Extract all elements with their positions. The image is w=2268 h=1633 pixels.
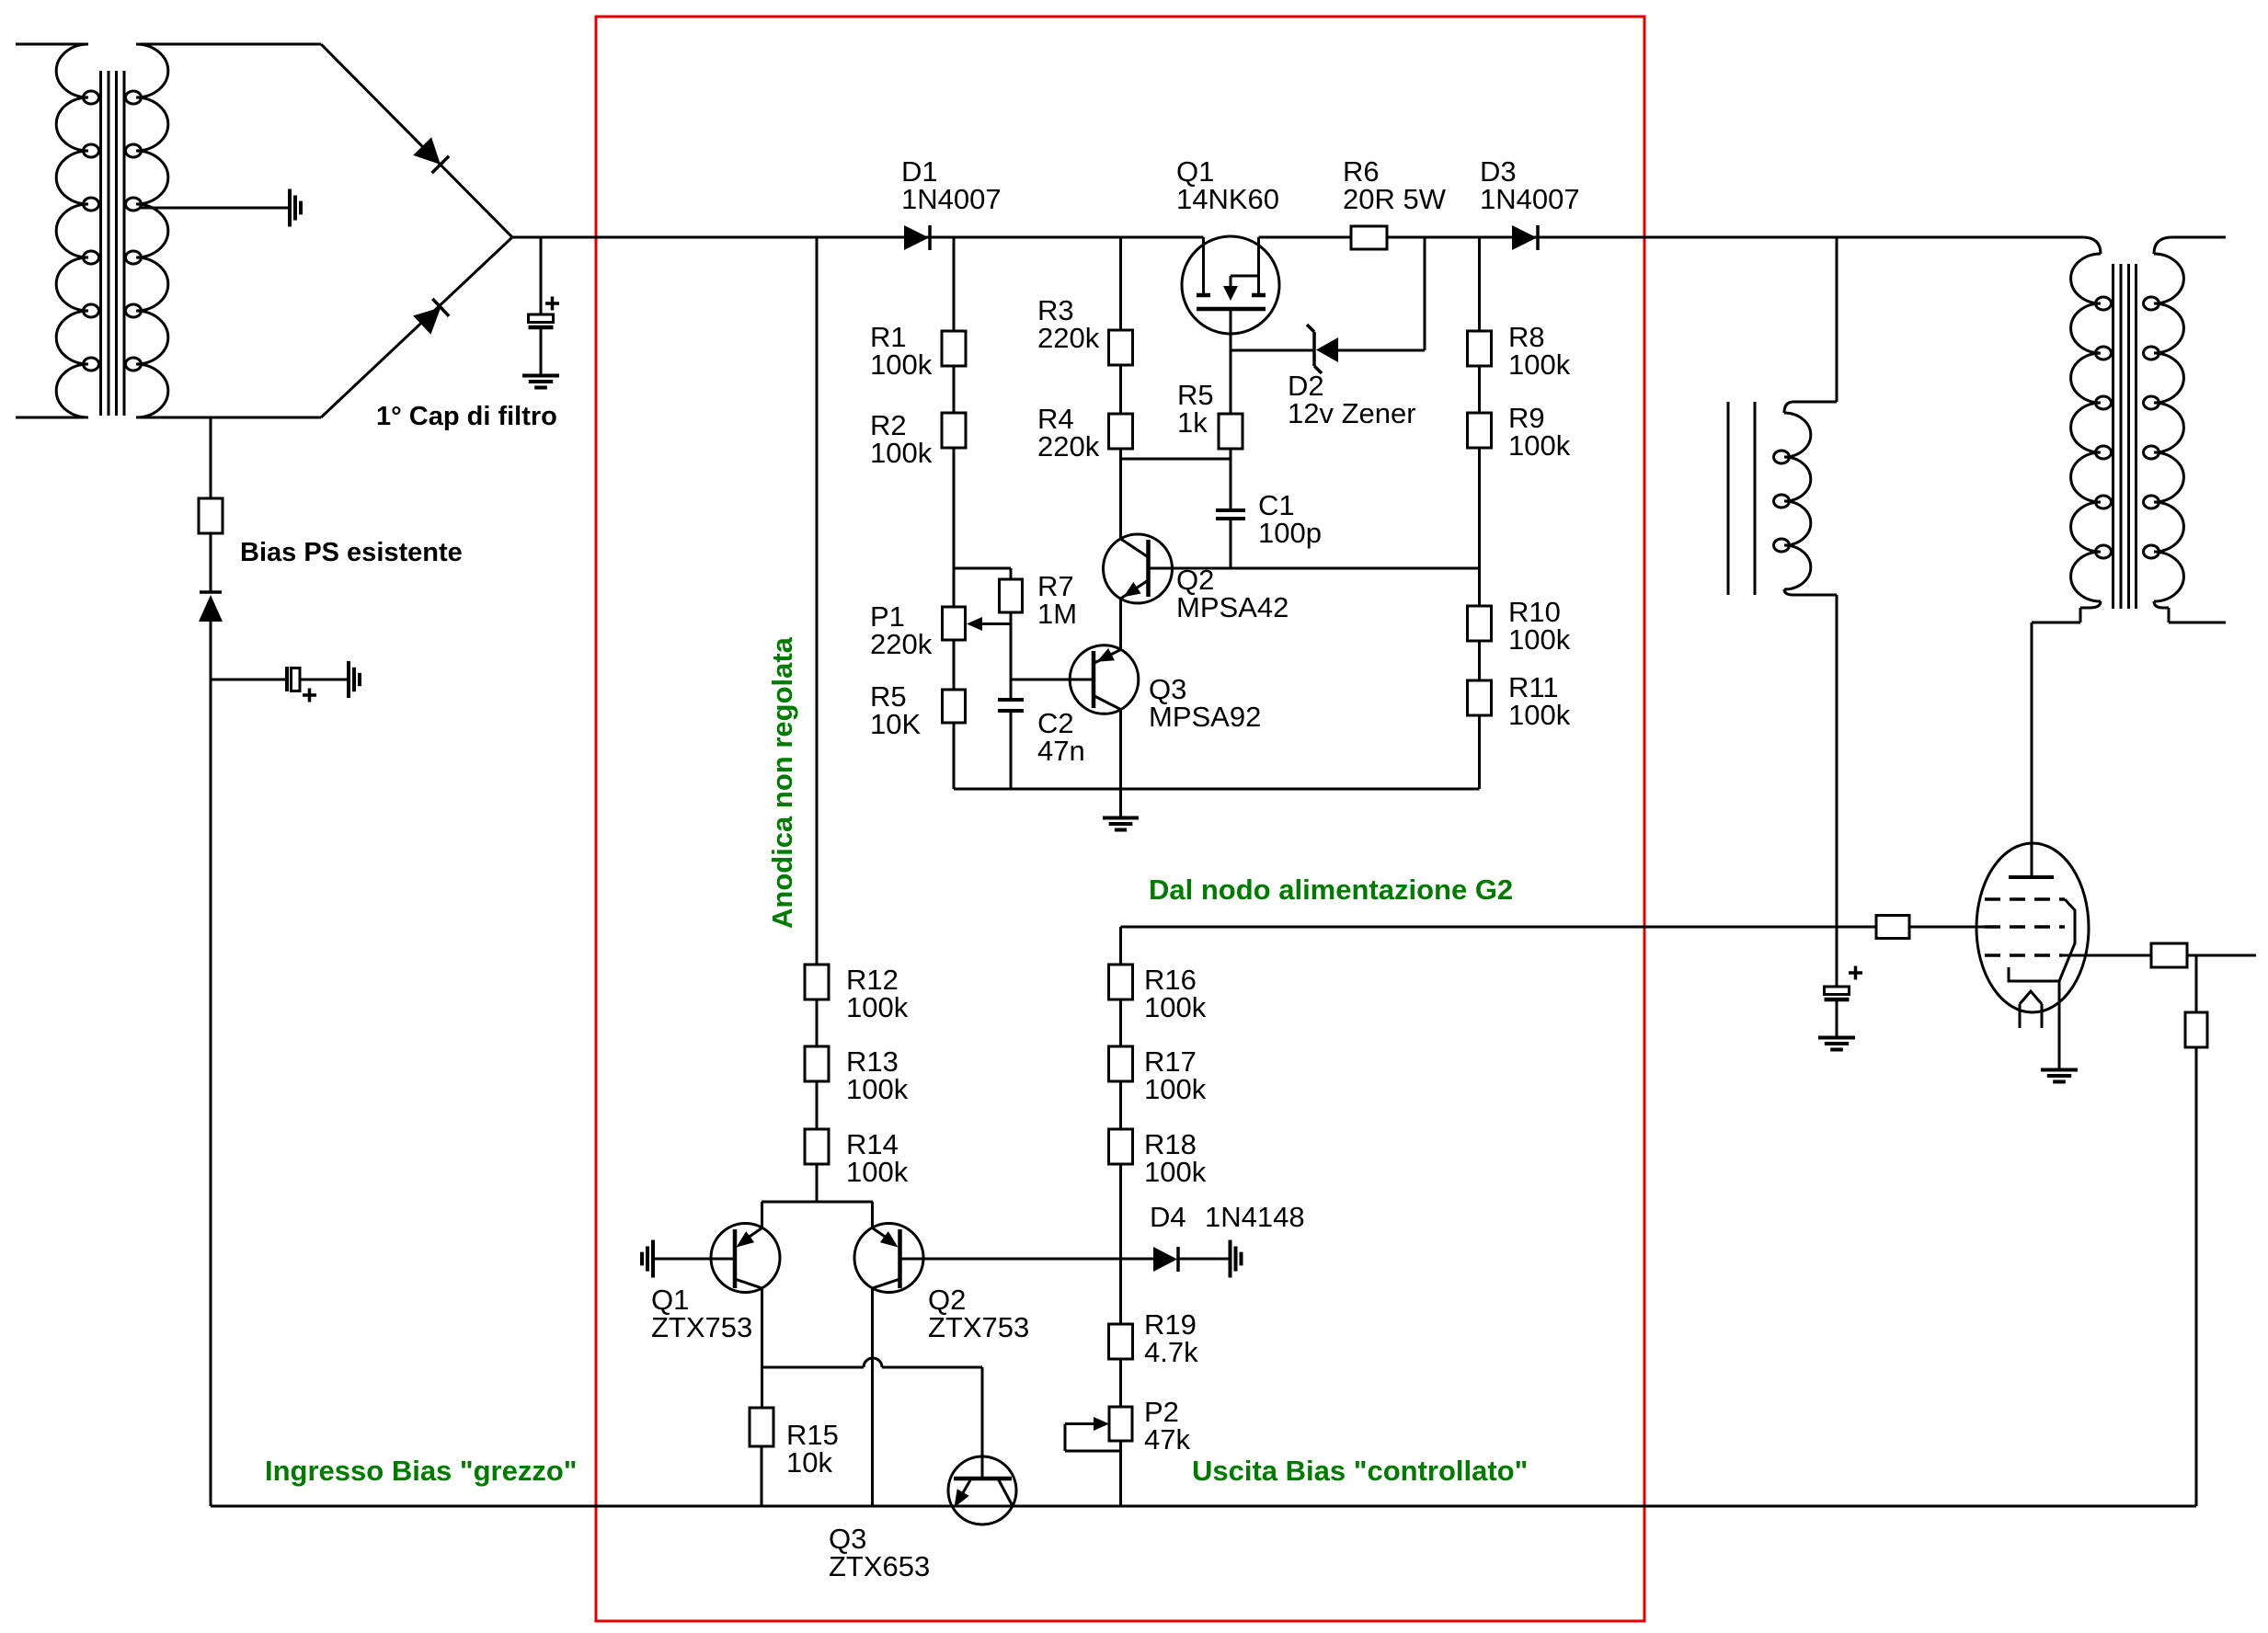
potentiometer P1: [943, 607, 966, 640]
wire rectifier lower diagonal: [321, 237, 512, 417]
label R11: [1508, 671, 1571, 731]
label Ingresso Bias "grezzo": [265, 1455, 578, 1487]
resistor R14: [805, 1129, 829, 1164]
label R2: [870, 409, 933, 469]
wire Q1 ZTX branch: [761, 1202, 763, 1408]
resistor R10: [1468, 606, 1492, 641]
svg-text:Uscita Bias "controllato": Uscita Bias "controllato": [1192, 1455, 1528, 1487]
svg-text:ZTX653: ZTX653: [829, 1550, 930, 1582]
svg-text:1N4148: 1N4148: [1205, 1201, 1305, 1233]
wire bias left rail: [210, 622, 212, 1506]
capacitor C2: [998, 700, 1024, 711]
wire bias output rail: [211, 1505, 2196, 1508]
resistor R5 1k: [1219, 414, 1243, 449]
ground cathode: [2041, 1070, 2078, 1082]
wire bias tap upper: [210, 417, 212, 498]
tube grid g1: [1985, 954, 2062, 957]
tube V1 envelope: [1976, 843, 2089, 1012]
wire B+ rail left: [512, 236, 1204, 239]
rectifier diode upper: [413, 137, 449, 173]
wire plate lead: [2031, 622, 2033, 877]
resistor R11: [1468, 680, 1492, 715]
transistor Q2 ZTX753: [854, 1224, 923, 1293]
wire R7 C2 chain: [1010, 568, 1013, 789]
diode bias: [199, 592, 223, 622]
svg-text:1N4007: 1N4007: [1480, 183, 1580, 215]
label R4: [1037, 403, 1100, 462]
ground 1° cap: [522, 376, 559, 388]
svg-text:MPSA42: MPSA42: [1176, 591, 1289, 623]
label Bias PS esistente: [240, 538, 463, 567]
capacitor C1: [1216, 510, 1245, 568]
wire regulator bottom rail: [954, 788, 1480, 791]
resistor R13: [805, 1046, 829, 1081]
wire Q1 base: [653, 1258, 734, 1261]
svg-text:1° Cap di filtro: 1° Cap di filtro: [376, 402, 557, 431]
wire divider chain A: [953, 237, 956, 789]
label R7: [1037, 570, 1077, 630]
svg-text:10k: 10k: [786, 1446, 832, 1479]
svg-text:220k: 220k: [1037, 430, 1100, 462]
wire centre tap: [141, 207, 290, 210]
resistor R5 10K: [943, 690, 966, 723]
svg-text:100k: 100k: [1508, 429, 1571, 462]
resistor R1: [942, 331, 966, 366]
tube grid g3: [1985, 899, 2075, 981]
svg-text:47k: 47k: [1144, 1423, 1190, 1456]
resistor g1 stopper: [2151, 943, 2187, 967]
svg-text:D4: D4: [1150, 1201, 1186, 1233]
potentiometer P2: [1109, 1407, 1132, 1441]
choke core: [1728, 402, 1755, 595]
label R6: [1343, 155, 1447, 215]
svg-text:1k: 1k: [1177, 406, 1208, 439]
resistor G2 stopper: [1876, 916, 1909, 939]
label Dal nodo alimentazione G2: [1149, 874, 1513, 906]
svg-text:100k: 100k: [870, 437, 933, 469]
capacitor 1° cap di filtro: [529, 237, 560, 375]
tube grid g2: [1985, 925, 2065, 929]
label C2: [1037, 707, 1085, 767]
wire R4 to R5 link: [1121, 458, 1231, 461]
label Q1 14NK60: [1176, 155, 1279, 215]
svg-text:100k: 100k: [846, 1073, 909, 1105]
svg-text:14NK60: 14NK60: [1176, 183, 1279, 215]
tube cathode: [2009, 967, 2059, 981]
wire chain G2 divider: [1119, 965, 1122, 1506]
label R15: [786, 1419, 839, 1479]
resistor R7: [1000, 579, 1023, 612]
rectifier diode lower: [413, 299, 449, 335]
wire Q2 base line: [1149, 567, 1480, 570]
label Uscita Bias "controllato": [1192, 1455, 1528, 1487]
label Anodica non regolata: [766, 636, 798, 929]
svg-text:1M: 1M: [1037, 598, 1077, 630]
resistor bias dropper: [199, 498, 223, 533]
resistor R2: [942, 413, 966, 448]
label D4 1N4148: [1150, 1201, 1305, 1233]
svg-text:Dal nodo alimentazione G2: Dal nodo alimentazione G2: [1149, 874, 1513, 906]
label R12: [846, 964, 909, 1023]
svg-text:Ingresso Bias "grezzo": Ingresso Bias "grezzo": [265, 1455, 578, 1487]
label Q3 ZTX653: [829, 1523, 930, 1582]
label Q3 MPSA92: [1149, 673, 1261, 733]
wire Q3 base: [1011, 679, 1094, 681]
svg-text:10K: 10K: [870, 708, 921, 740]
svg-text:100k: 100k: [1508, 699, 1571, 731]
wire g1 lead: [2062, 954, 2256, 957]
wire divider chain B: [1119, 237, 1122, 817]
svg-text:ZTX753: ZTX753: [651, 1311, 752, 1343]
svg-text:100k: 100k: [846, 991, 909, 1023]
resistor R8: [1468, 331, 1492, 366]
resistor R15: [750, 1408, 773, 1446]
label P2: [1144, 1396, 1190, 1456]
label R10: [1508, 596, 1571, 656]
wire R5 to C1: [1230, 449, 1232, 510]
label C1: [1258, 489, 1322, 549]
resistor R3: [1109, 330, 1133, 365]
svg-text:1N4007: 1N4007: [901, 183, 1002, 215]
wire bias tap mid: [210, 533, 212, 593]
svg-text:12v Zener: 12v Zener: [1288, 397, 1416, 429]
potentiometer P2 wiper: [1065, 1417, 1121, 1451]
wire collector bus: [762, 1201, 873, 1204]
OPT core: [2113, 264, 2136, 609]
label Q1 ZTX753: [651, 1284, 752, 1343]
resistor R19: [1109, 1324, 1133, 1359]
label D1 1N4007: [901, 155, 1002, 215]
red boundary frame: [596, 17, 1644, 1621]
chassis ground Q1 base: [642, 1240, 653, 1278]
label R1: [870, 321, 933, 381]
wire B+ rail right: [1259, 236, 2083, 239]
label D3: [1480, 155, 1580, 215]
label R13: [846, 1045, 909, 1105]
wire zener branch: [1231, 237, 1425, 350]
resistor R9: [1468, 413, 1492, 448]
wire grid leak branch: [2195, 955, 2198, 1506]
wire anodica non regolata: [816, 237, 819, 1202]
resistor R12: [805, 965, 829, 999]
label R17: [1144, 1045, 1207, 1105]
label R16: [1144, 964, 1207, 1023]
label 1° Cap di filtro: [376, 402, 557, 431]
svg-text:100k: 100k: [1508, 623, 1571, 656]
resistor R4: [1109, 414, 1133, 449]
label R5 10K: [870, 680, 921, 740]
transformer T1 core: [101, 71, 125, 416]
svg-text:ZTX753: ZTX753: [928, 1311, 1029, 1343]
svg-text:100k: 100k: [1144, 1156, 1207, 1188]
capacitor G2 filter: [1825, 927, 1863, 1037]
label R18: [1144, 1128, 1207, 1188]
resistor R16: [1109, 965, 1133, 999]
wire chain C: [1478, 237, 1481, 789]
svg-text:100p: 100p: [1258, 517, 1322, 549]
diode D4: [1153, 1247, 1178, 1272]
resistor R6: [1351, 226, 1387, 249]
wire bias cap branch: [211, 679, 349, 681]
output transformer primary winding: [2032, 237, 2112, 622]
svg-text:4.7k: 4.7k: [1144, 1336, 1198, 1368]
label D2: [1288, 370, 1416, 429]
wire choke to G2 node: [1836, 595, 1838, 927]
svg-text:100k: 100k: [870, 348, 933, 381]
transistor Q3 ZTX653: [948, 1456, 1016, 1525]
svg-text:47n: 47n: [1037, 735, 1085, 767]
label R8: [1508, 321, 1571, 381]
label R5 1k: [1177, 379, 1214, 439]
label Q2 MPSA42: [1176, 564, 1289, 623]
chassis ground centre tap: [290, 189, 301, 227]
wire R2 to R7 tap: [954, 567, 1011, 570]
svg-text:220k: 220k: [870, 628, 933, 660]
chassis ground bias cap: [349, 661, 360, 698]
mosfet Q1 14NK60: [1182, 236, 1279, 350]
chassis ground D4: [1231, 1240, 1242, 1278]
label R9: [1508, 402, 1571, 462]
capacitor bias reservoir: [287, 667, 316, 702]
svg-text:100k: 100k: [1508, 348, 1571, 381]
zener D2: [1307, 325, 1338, 373]
svg-text:20R 5W: 20R 5W: [1343, 183, 1447, 215]
ground G2 cap: [1818, 1038, 1855, 1050]
label P1: [870, 600, 933, 660]
transistor Q1 ZTX753: [711, 1224, 780, 1293]
output transformer secondary winding: [2144, 237, 2227, 622]
wire cathode lead: [2058, 981, 2061, 1069]
resistor R17: [1109, 1046, 1133, 1081]
tube heater: [2020, 991, 2042, 1028]
transistor Q3 MPSA92: [1070, 645, 1139, 714]
resistor R18: [1109, 1129, 1133, 1164]
svg-text:Bias PS esistente: Bias PS esistente: [240, 538, 463, 567]
svg-text:Anodica non regolata: Anodica non regolata: [766, 636, 798, 929]
wire B+ to choke: [1793, 237, 1837, 402]
label Q2 ZTX753: [928, 1284, 1029, 1343]
svg-text:220k: 220k: [1037, 322, 1100, 354]
ground regulator: [1103, 789, 1139, 830]
resistor grid leak: [2185, 1012, 2207, 1047]
wire rectifier upper diagonal: [321, 44, 512, 237]
wire Q2 base to D4: [899, 1258, 1230, 1261]
transformer T1 primary winding: [16, 44, 99, 417]
diode D1: [904, 225, 930, 250]
svg-text:MPSA92: MPSA92: [1149, 701, 1261, 733]
svg-text:100k: 100k: [1144, 1073, 1207, 1105]
label R14: [846, 1128, 909, 1188]
potentiometer P1 wiper: [967, 617, 1011, 631]
wire G2 supply line: [1121, 927, 1986, 965]
svg-text:100k: 100k: [1144, 991, 1207, 1023]
transformer T1 secondary winding: [126, 44, 322, 417]
transistor Q2 MPSA42: [1104, 534, 1173, 603]
wire Q2 ZTX branch: [871, 1202, 874, 1506]
label R3: [1037, 294, 1100, 354]
svg-text:100k: 100k: [846, 1156, 909, 1188]
tube plate: [2009, 875, 2054, 879]
wire R15 bottom: [761, 1446, 763, 1506]
wire Q3 feed with hop: [762, 1358, 982, 1479]
diode D3: [1512, 225, 1538, 250]
label R19: [1144, 1308, 1198, 1368]
wire mosfet source: [1230, 350, 1232, 414]
inductor choke: [1774, 402, 1838, 595]
